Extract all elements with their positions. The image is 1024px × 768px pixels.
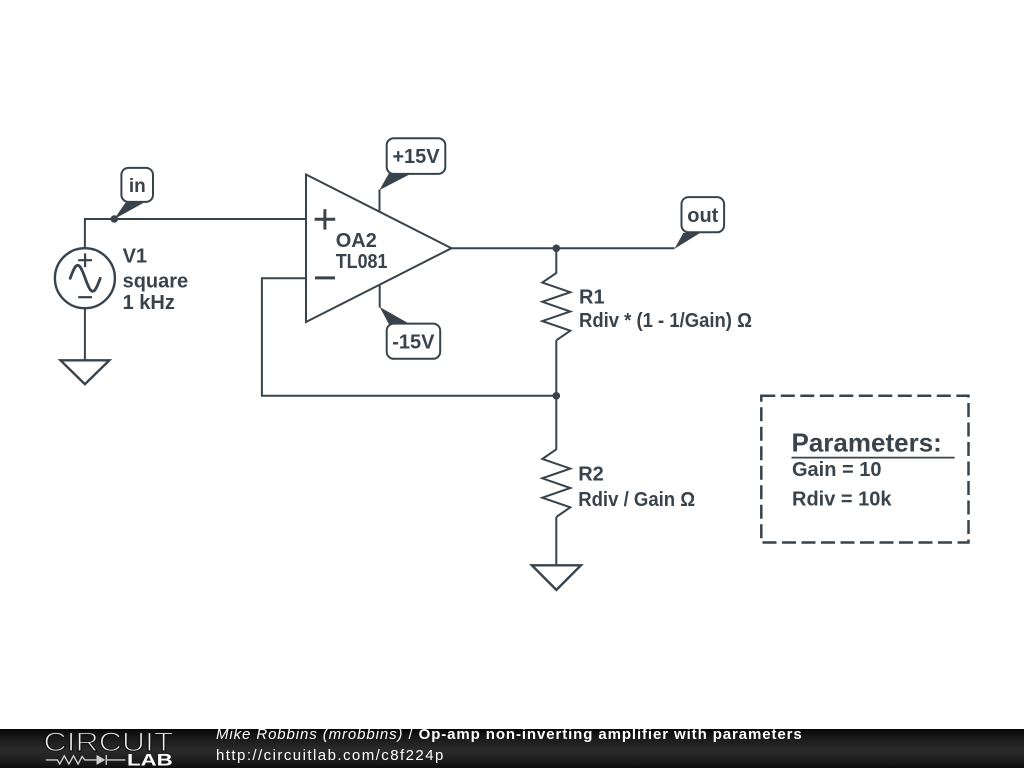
wire: R1 bottom to feedback node <box>555 340 557 396</box>
label R1 / Rdiv * (1 - 1/Gain) Ω <box>579 287 752 332</box>
wire: output node down to R1 <box>555 248 557 273</box>
wire: V+ power pin <box>379 190 381 212</box>
svg-text:in: in <box>129 176 146 197</box>
svg-text:LAB: LAB <box>127 751 173 768</box>
ground symbol below V1 <box>61 360 110 384</box>
CircuitLab logo resistor-diode glyph <box>46 755 126 765</box>
op-amp + input symbol <box>315 209 336 229</box>
wire: feedback node down to R2 <box>555 396 557 450</box>
wire: V- power pin <box>379 285 381 307</box>
svg-text:R1: R1 <box>579 287 605 309</box>
footer url text <box>216 747 445 764</box>
node: feedback junction dot <box>553 392 561 400</box>
svg-text:out: out <box>687 205 718 227</box>
op-amp OA2 triangle <box>306 175 452 323</box>
wire: feedback from inverting input to junction <box>262 278 556 396</box>
wire: V1 bottom to ground <box>84 308 86 360</box>
svg-text:V1: V1 <box>123 246 147 268</box>
footer bar <box>0 729 1024 768</box>
label Parameters: heading <box>792 428 955 458</box>
svg-text:TL081: TL081 <box>336 251 388 273</box>
svg-text:Rdiv * (1 - 1/Gain) Ω: Rdiv * (1 - 1/Gain) Ω <box>579 310 752 332</box>
op-amp - input symbol <box>315 276 335 279</box>
power flag -15V <box>380 307 441 359</box>
svg-text:R2: R2 <box>578 464 604 486</box>
svg-text:Rdiv = 10k: Rdiv = 10k <box>792 488 892 510</box>
svg-text:square: square <box>123 270 189 292</box>
net flag "out" <box>675 197 725 249</box>
power flag +15V <box>380 138 446 190</box>
svg-text:1 kHz: 1 kHz <box>123 292 175 314</box>
svg-text:Parameters:: Parameters: <box>792 428 942 458</box>
label R2 / Rdiv / Gain Ω <box>578 464 695 511</box>
svg-text:+15V: +15V <box>392 146 440 168</box>
node: "in" junction dot <box>111 215 119 223</box>
svg-text:Gain = 10: Gain = 10 <box>792 459 882 481</box>
wire: input net from V1 top corner to op-amp non-inverting input <box>85 219 306 248</box>
wire: R2 bottom to ground <box>555 517 557 565</box>
resistor R2 <box>542 449 570 517</box>
wire: op-amp output to out flag <box>452 247 675 249</box>
voltage source V1 <box>55 248 115 308</box>
svg-text:-15V: -15V <box>392 331 435 353</box>
label V1 / square / 1 kHz <box>123 246 189 314</box>
footer credit text <box>216 726 803 743</box>
node: output junction dot <box>553 245 561 253</box>
resistor R1 <box>542 273 570 340</box>
ground symbol below R2 <box>532 565 581 590</box>
parameters dashed box <box>761 396 968 543</box>
label OA2 / TL081 <box>336 230 388 273</box>
net flag "in" <box>114 168 153 219</box>
svg-text:Rdiv / Gain Ω: Rdiv / Gain Ω <box>578 489 695 511</box>
svg-text:OA2: OA2 <box>336 230 377 252</box>
